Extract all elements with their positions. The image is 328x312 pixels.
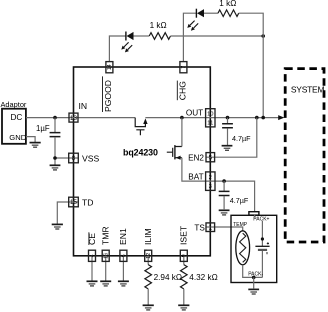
pin ILIM 12: [145, 250, 152, 261]
label ILIM: [143, 228, 153, 245]
wire BAT to pack: [215, 181, 255, 212]
node battery dot: [261, 237, 264, 240]
svg-text:ISET: ISET: [179, 225, 189, 245]
wire Q2 drain to OUT node: [181, 118, 183, 147]
node EN2 riser junction: [255, 116, 259, 120]
ground EN1: [118, 281, 129, 286]
wire TD to ground: [57, 202, 78, 224]
svg-text:1 kΩ: 1 kΩ: [219, 0, 236, 8]
pin TS 1: [206, 223, 215, 232]
wire battery bottom: [261, 251, 263, 277]
wire VIN to C1: [54, 118, 56, 132]
pin EN2 5: [206, 153, 215, 162]
resistor R1 1k: [149, 33, 170, 40]
wire pack to ground: [253, 277, 255, 288]
node LED junction: [261, 34, 265, 38]
svg-text:1 kΩ: 1 kΩ: [150, 21, 167, 30]
battery cell plates: [255, 246, 269, 250]
wire R4 to ground: [183, 289, 185, 305]
IC label bq24230: [123, 147, 158, 157]
label TEMP: [233, 222, 248, 228]
wire C1 to VSS node: [54, 137, 56, 165]
pin PGOOD 14: [106, 62, 113, 73]
PACK+ terminal: [249, 212, 259, 215]
thermistor zigzag: [240, 233, 246, 262]
IC U1 bq24230 body: [74, 67, 211, 256]
wire TMR to ground: [105, 256, 107, 281]
svg-text:ILIM: ILIM: [143, 228, 153, 245]
svg-text:3: 3: [209, 184, 212, 190]
wire CHG riser: [183, 13, 196, 62]
svg-text:14: 14: [107, 64, 113, 70]
node BAT cap junction: [222, 179, 226, 183]
label TD: [82, 197, 93, 207]
pin EN1 6: [120, 250, 127, 261]
wire CE to ground: [91, 256, 93, 281]
pin BAT 2 3: [206, 172, 215, 191]
wire Q2 source to BAT pin: [182, 158, 215, 181]
wire ILIM to R3: [147, 256, 149, 265]
label R1 1 kOhm: [150, 21, 167, 30]
label OUT: [186, 109, 203, 118]
svg-text:TMR: TMR: [101, 226, 111, 245]
svg-text:5: 5: [209, 154, 213, 161]
label IN: [79, 101, 88, 111]
wire C3 to ground: [223, 196, 225, 209]
label R2 1 kOhm: [219, 0, 236, 8]
wire adaptor GND down: [26, 137, 35, 143]
label CHG with overline: [177, 81, 187, 101]
svg-text:EN1: EN1: [118, 228, 128, 245]
wire battery top: [261, 221, 263, 246]
ground VSS: [50, 165, 61, 170]
capacitor C3 4.7uF plates: [219, 191, 230, 195]
resistor R3 2.94k: [145, 265, 152, 289]
svg-text:PGOOD: PGOOD: [103, 80, 113, 112]
ground CE: [87, 281, 98, 286]
svg-text:4.7µF: 4.7µF: [230, 196, 249, 205]
svg-text:TS: TS: [194, 223, 205, 232]
svg-text:PACK-: PACK-: [248, 271, 263, 277]
label ISET: [179, 225, 189, 245]
battery FET Q2: [167, 145, 182, 160]
capacitor C2 4.7uF plates: [222, 124, 233, 128]
ground adaptor: [30, 143, 41, 148]
label CE with overline: [87, 232, 97, 245]
label R4 4.32 kOhm: [189, 273, 217, 282]
wire PACK+ stub: [254, 215, 256, 218]
label C2 4.7uF: [232, 134, 251, 143]
wire thermistor bottom: [243, 265, 263, 278]
svg-text:8: 8: [72, 155, 76, 162]
label TMR: [101, 226, 111, 245]
svg-text:EN2: EN2: [188, 153, 204, 162]
node PACK- junction: [252, 276, 256, 280]
arrow into SYSTEM: [278, 115, 284, 120]
pin VSS 8: [69, 153, 79, 163]
pin IN 13: [69, 113, 78, 122]
svg-text:11: 11: [207, 120, 213, 126]
label VSS: [82, 153, 99, 163]
svg-text:10: 10: [207, 112, 213, 118]
resistor R2 1k: [218, 10, 239, 17]
svg-text:SYSTEM: SYSTEM: [291, 84, 325, 94]
svg-text:4: 4: [90, 254, 96, 257]
node LED riser junction: [261, 116, 265, 120]
battery minus mark: [266, 252, 268, 254]
wire D2 to R2: [204, 12, 218, 14]
wire R2 to OUT riser: [239, 13, 264, 117]
adaptor DC terminal label: [11, 113, 23, 122]
svg-text:CE: CE: [87, 233, 97, 245]
svg-text:VSS: VSS: [82, 153, 99, 163]
svg-text:15: 15: [70, 199, 77, 206]
label R3 2.94 kOhm: [154, 273, 182, 282]
ground R4: [178, 305, 189, 310]
wire D1 to R1: [134, 35, 150, 37]
svg-text:2.94 kΩ: 2.94 kΩ: [154, 273, 182, 282]
node VSS junction: [53, 156, 57, 160]
label EN2: [188, 153, 204, 162]
svg-text:12: 12: [146, 253, 152, 259]
pin ISET 9: [180, 250, 187, 261]
LED D1 PGOOD: [126, 32, 134, 41]
wire IN pin to input FET: [78, 117, 135, 119]
wire PGOOD riser: [109, 36, 126, 62]
LED D1 arrows: [121, 42, 132, 52]
label BAT: [188, 173, 203, 182]
battery pack box: [231, 215, 277, 282]
label 1uF: [36, 124, 50, 133]
LED D2 arrows: [187, 21, 198, 31]
pin OUT 10 11: [206, 109, 215, 127]
svg-text:CHG: CHG: [177, 81, 187, 100]
svg-text:GND: GND: [9, 133, 26, 142]
wire BAT cap tap: [223, 181, 225, 191]
LED D2 CHG: [196, 9, 204, 18]
wire VSS pin to node: [55, 157, 78, 159]
pin TD 15: [69, 197, 79, 207]
wire adaptor DC to IN pin: [26, 117, 78, 119]
pin TMR 16: [102, 250, 109, 261]
adaptor box: [2, 109, 26, 144]
ground TD: [52, 224, 63, 229]
ground TMR: [100, 281, 111, 286]
adaptor label: [1, 100, 27, 109]
pin CHG 7: [180, 62, 187, 73]
pin CE 4: [89, 250, 96, 261]
capacitor C1 1uF plates: [50, 133, 61, 137]
wire EN1 to ground: [122, 256, 124, 281]
battery plus mark: [267, 242, 269, 244]
ground C2: [222, 146, 233, 151]
label TS: [194, 223, 205, 232]
ground R3: [143, 305, 154, 310]
svg-text:PACK+: PACK+: [253, 217, 269, 223]
svg-text:2: 2: [209, 175, 212, 181]
svg-text:1µF: 1µF: [36, 124, 50, 133]
svg-text:Adaptor: Adaptor: [1, 100, 27, 109]
wire EN2 to OUT: [206, 118, 257, 158]
ground pack: [248, 289, 259, 294]
label SYSTEM: [291, 84, 325, 94]
svg-text:TD: TD: [82, 197, 93, 207]
svg-text:BAT: BAT: [188, 173, 203, 182]
svg-text:7: 7: [181, 66, 187, 69]
resistor R4 4.32k: [181, 265, 188, 289]
svg-text:bq24230: bq24230: [123, 147, 158, 157]
svg-text:DC: DC: [11, 113, 23, 122]
node OUT cap junction: [226, 116, 230, 120]
label PACK-: [248, 271, 263, 277]
svg-text:9: 9: [182, 254, 188, 257]
wire ISET to R4: [183, 256, 185, 265]
wire C2 to ground: [227, 128, 229, 145]
svg-text:16: 16: [104, 253, 110, 259]
SYSTEM dashed box: [285, 69, 324, 242]
node VIN junction: [53, 116, 57, 120]
wire TS to thermistor: [206, 227, 243, 231]
label C3 4.7uF: [230, 196, 249, 205]
svg-text:OUT: OUT: [186, 109, 203, 118]
label EN1: [118, 228, 128, 245]
svg-text:TEMP: TEMP: [233, 222, 248, 228]
label PACK+: [253, 217, 269, 223]
wire R1 to OUT riser: [171, 35, 264, 37]
svg-text:13: 13: [70, 115, 77, 122]
label PGOOD with overline: [103, 76, 113, 112]
svg-text:IN: IN: [79, 101, 88, 111]
adaptor GND terminal label: [9, 133, 26, 142]
node internal OUT junction: [180, 116, 184, 120]
thermistor ellipse: [236, 231, 250, 265]
wire R3 to ground: [147, 289, 149, 305]
svg-text:1: 1: [209, 224, 213, 231]
ground C3: [219, 210, 230, 215]
input FET Q1: [135, 118, 147, 136]
svg-text:4.7µF: 4.7µF: [232, 134, 251, 143]
wire OUT to SYSTEM: [215, 117, 279, 119]
svg-text:6: 6: [121, 254, 127, 257]
svg-text:4.32 kΩ: 4.32 kΩ: [189, 273, 217, 282]
wire input FET to OUT pin: [145, 117, 215, 119]
wire OUT cap tap: [227, 118, 229, 124]
